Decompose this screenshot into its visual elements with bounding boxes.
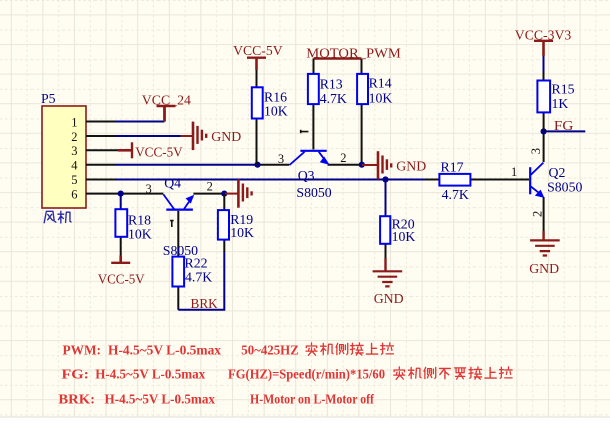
power port VCC-3V3 — [534, 41, 553, 56]
svg-text:VCC-5V: VCC-5V — [135, 145, 183, 160]
svg-text:S8050: S8050 — [547, 180, 582, 195]
pin 1 Q3 (rotated) — [300, 130, 308, 134]
svg-text:2: 2 — [531, 211, 545, 217]
power port VCC-5V pin3 — [118, 142, 132, 158]
wire pin4 (net to Q3 base side) — [116, 164, 258, 166]
svg-text:R18: R18 — [128, 213, 151, 228]
svg-text:4.7K: 4.7K — [442, 187, 469, 202]
svg-text:1: 1 — [511, 165, 517, 179]
junction Q3/R14 — [359, 162, 365, 168]
wire Q2 collector up to FG — [543, 131, 545, 162]
pin 4 stub — [86, 164, 116, 166]
svg-text:1K: 1K — [552, 96, 569, 111]
wire pin5 long (PWM line to R17/Q2) — [116, 179, 425, 181]
wire bar to R14 — [361, 59, 363, 74]
svg-text:H-4.5~5V L-0.5max: H-4.5~5V L-0.5max — [95, 368, 205, 383]
resistor R16 — [252, 87, 263, 118]
svg-text:VCC-3V3: VCC-3V3 — [515, 27, 572, 42]
wire R13 bottom to Q3 base — [312, 104, 314, 149]
connector P5 — [42, 106, 86, 208]
wire to R15 top — [543, 56, 545, 72]
resistor R20 — [380, 216, 390, 244]
pin 2 stub — [86, 135, 116, 137]
svg-text:2: 2 — [340, 151, 346, 165]
svg-text:GND: GND — [211, 129, 241, 144]
svg-text:5: 5 — [71, 173, 77, 187]
svg-text:2: 2 — [207, 180, 213, 194]
wire bar to R13 — [313, 59, 315, 74]
wire FG stub — [544, 130, 586, 132]
resistor R22 — [172, 257, 184, 287]
svg-text:3: 3 — [529, 148, 543, 154]
pin 6 stub — [86, 193, 116, 195]
junction R18/pin6 — [118, 191, 124, 197]
svg-text:GND: GND — [529, 261, 559, 276]
pin 3 stub — [86, 149, 118, 151]
ground (sideways) at Q3 emitter — [362, 164, 378, 166]
svg-text:R16: R16 — [264, 90, 287, 105]
svg-text:H-4.5~5V L-0.5max: H-4.5~5V L-0.5max — [108, 343, 221, 358]
pin 1 Q4 (rotated) — [170, 220, 174, 227]
resistor R18 — [115, 209, 127, 237]
svg-text:FG: FG — [554, 118, 574, 133]
svg-text:S8050: S8050 — [296, 185, 331, 200]
resistor R14 — [357, 74, 368, 104]
svg-text:BRK:: BRK: — [58, 393, 95, 408]
wire BRK net (U shape) — [178, 252, 224, 310]
svg-text:10K: 10K — [369, 91, 393, 106]
svg-text:FG(HZ)=Speed(r/min)*15/60: FG(HZ)=Speed(r/min)*15/60 — [228, 368, 385, 383]
svg-text:R15: R15 — [552, 82, 575, 97]
svg-text:3: 3 — [146, 182, 152, 196]
wire pin1 to VCC_24 — [116, 121, 165, 123]
svg-text:BRK: BRK — [191, 296, 218, 311]
svg-text:Q3: Q3 — [298, 168, 315, 183]
svg-text:Q2: Q2 — [549, 165, 566, 180]
wire pin6 to Q4 — [116, 193, 163, 195]
wire R16 top — [256, 70, 258, 87]
svg-text:10K: 10K — [128, 226, 152, 241]
annotation line1 chinese 实机侧接上拉 — [306, 343, 394, 355]
svg-text:3: 3 — [71, 144, 77, 158]
svg-text:VCC_24: VCC_24 — [142, 92, 191, 107]
wire pin2 to GND — [116, 135, 181, 137]
wire R17 right to Q2 base — [470, 179, 529, 181]
svg-text:10K: 10K — [392, 229, 416, 244]
svg-text:VCC-5V: VCC-5V — [98, 272, 145, 287]
resistor R15 — [537, 81, 550, 113]
svg-text:R22: R22 — [185, 256, 208, 271]
wire Q4 emitter to R19 junction — [193, 193, 224, 195]
wire R14 bottom to Q3 emitter junction — [361, 104, 363, 165]
svg-text:4.7K: 4.7K — [185, 269, 212, 284]
svg-text:R13: R13 — [320, 76, 343, 91]
svg-text:GND: GND — [396, 159, 426, 174]
annotation line 2 FG — [62, 368, 386, 383]
junction R20/pin5 — [382, 176, 388, 182]
svg-text:R17: R17 — [441, 159, 464, 174]
power port VCC-5V below R18 (inverted) — [111, 256, 130, 263]
svg-text:6: 6 — [71, 187, 77, 201]
svg-text:MOTOR_PWM: MOTOR_PWM — [306, 46, 401, 61]
annotation line 1 PWM — [63, 343, 299, 358]
svg-text:10K: 10K — [264, 103, 288, 118]
bottom white strip — [0, 417, 610, 424]
power port VCC_24 — [157, 106, 176, 122]
ground (sideways) pin2 — [181, 135, 193, 137]
wire R20 drop — [385, 180, 387, 217]
svg-text:1: 1 — [71, 115, 77, 129]
svg-text:PWM:: PWM: — [63, 343, 102, 358]
transistor Q4 — [163, 194, 194, 209]
power bar MOTOR_PWM — [314, 57, 362, 59]
wire R15 bottom — [543, 112, 545, 131]
svg-text:GND: GND — [374, 291, 404, 306]
svg-text:4.7K: 4.7K — [320, 91, 347, 106]
power port VCC-5V above R16 — [247, 58, 266, 70]
svg-text:R14: R14 — [369, 76, 392, 91]
wire Q2 emitter down — [543, 197, 545, 231]
wire R16 bottom to pin4 — [256, 119, 258, 165]
svg-text:Q4: Q4 — [164, 176, 181, 191]
svg-text:2: 2 — [71, 130, 77, 144]
wire R19 top drop — [223, 194, 225, 211]
wire R18 drop — [120, 194, 122, 210]
svg-text:FG:: FG: — [62, 368, 90, 383]
label 风机 — [44, 211, 71, 223]
wire R20 bottom — [385, 244, 387, 258]
annotation line 3 BRK — [58, 393, 374, 408]
svg-text:4: 4 — [71, 159, 78, 173]
svg-text:10K: 10K — [230, 225, 254, 240]
ground (earth) below R20 — [373, 271, 403, 286]
pin 5 stub — [86, 179, 116, 181]
resistor R17 (horizontal) — [439, 174, 470, 186]
wire Q4 base drop to R22 — [177, 211, 179, 257]
wire R19 bottom — [223, 240, 225, 252]
resistor R13 — [308, 74, 319, 104]
pin numbers P5 — [71, 115, 78, 201]
junction R16/pin4 — [254, 162, 260, 168]
ground (earth) below Q2 — [530, 240, 560, 255]
pin 1 stub — [86, 121, 116, 123]
wire R22 bottom — [177, 287, 179, 310]
junction FG — [541, 128, 547, 134]
svg-text:50~425HZ: 50~425HZ — [241, 343, 298, 358]
svg-text:3: 3 — [278, 152, 284, 166]
resistor R19 — [218, 210, 229, 240]
wire R18 bottom — [120, 237, 122, 256]
annotation line2 chinese 实机侧不要接上拉 — [394, 367, 512, 379]
wire Q3 emitter right — [328, 164, 362, 166]
svg-text:VCC-5V: VCC-5V — [233, 43, 283, 58]
transistor Q2 — [530, 163, 544, 198]
ground (sideways) at Q4 emitter — [225, 193, 238, 195]
junction R19/Q4 — [221, 191, 227, 197]
svg-text:P5: P5 — [41, 91, 56, 106]
transistor Q3 — [290, 151, 330, 165]
svg-text:H-4.5~5V L-0.5max: H-4.5~5V L-0.5max — [105, 393, 216, 408]
svg-text:H-Motor on L-Motor off: H-Motor on L-Motor off — [250, 393, 374, 408]
